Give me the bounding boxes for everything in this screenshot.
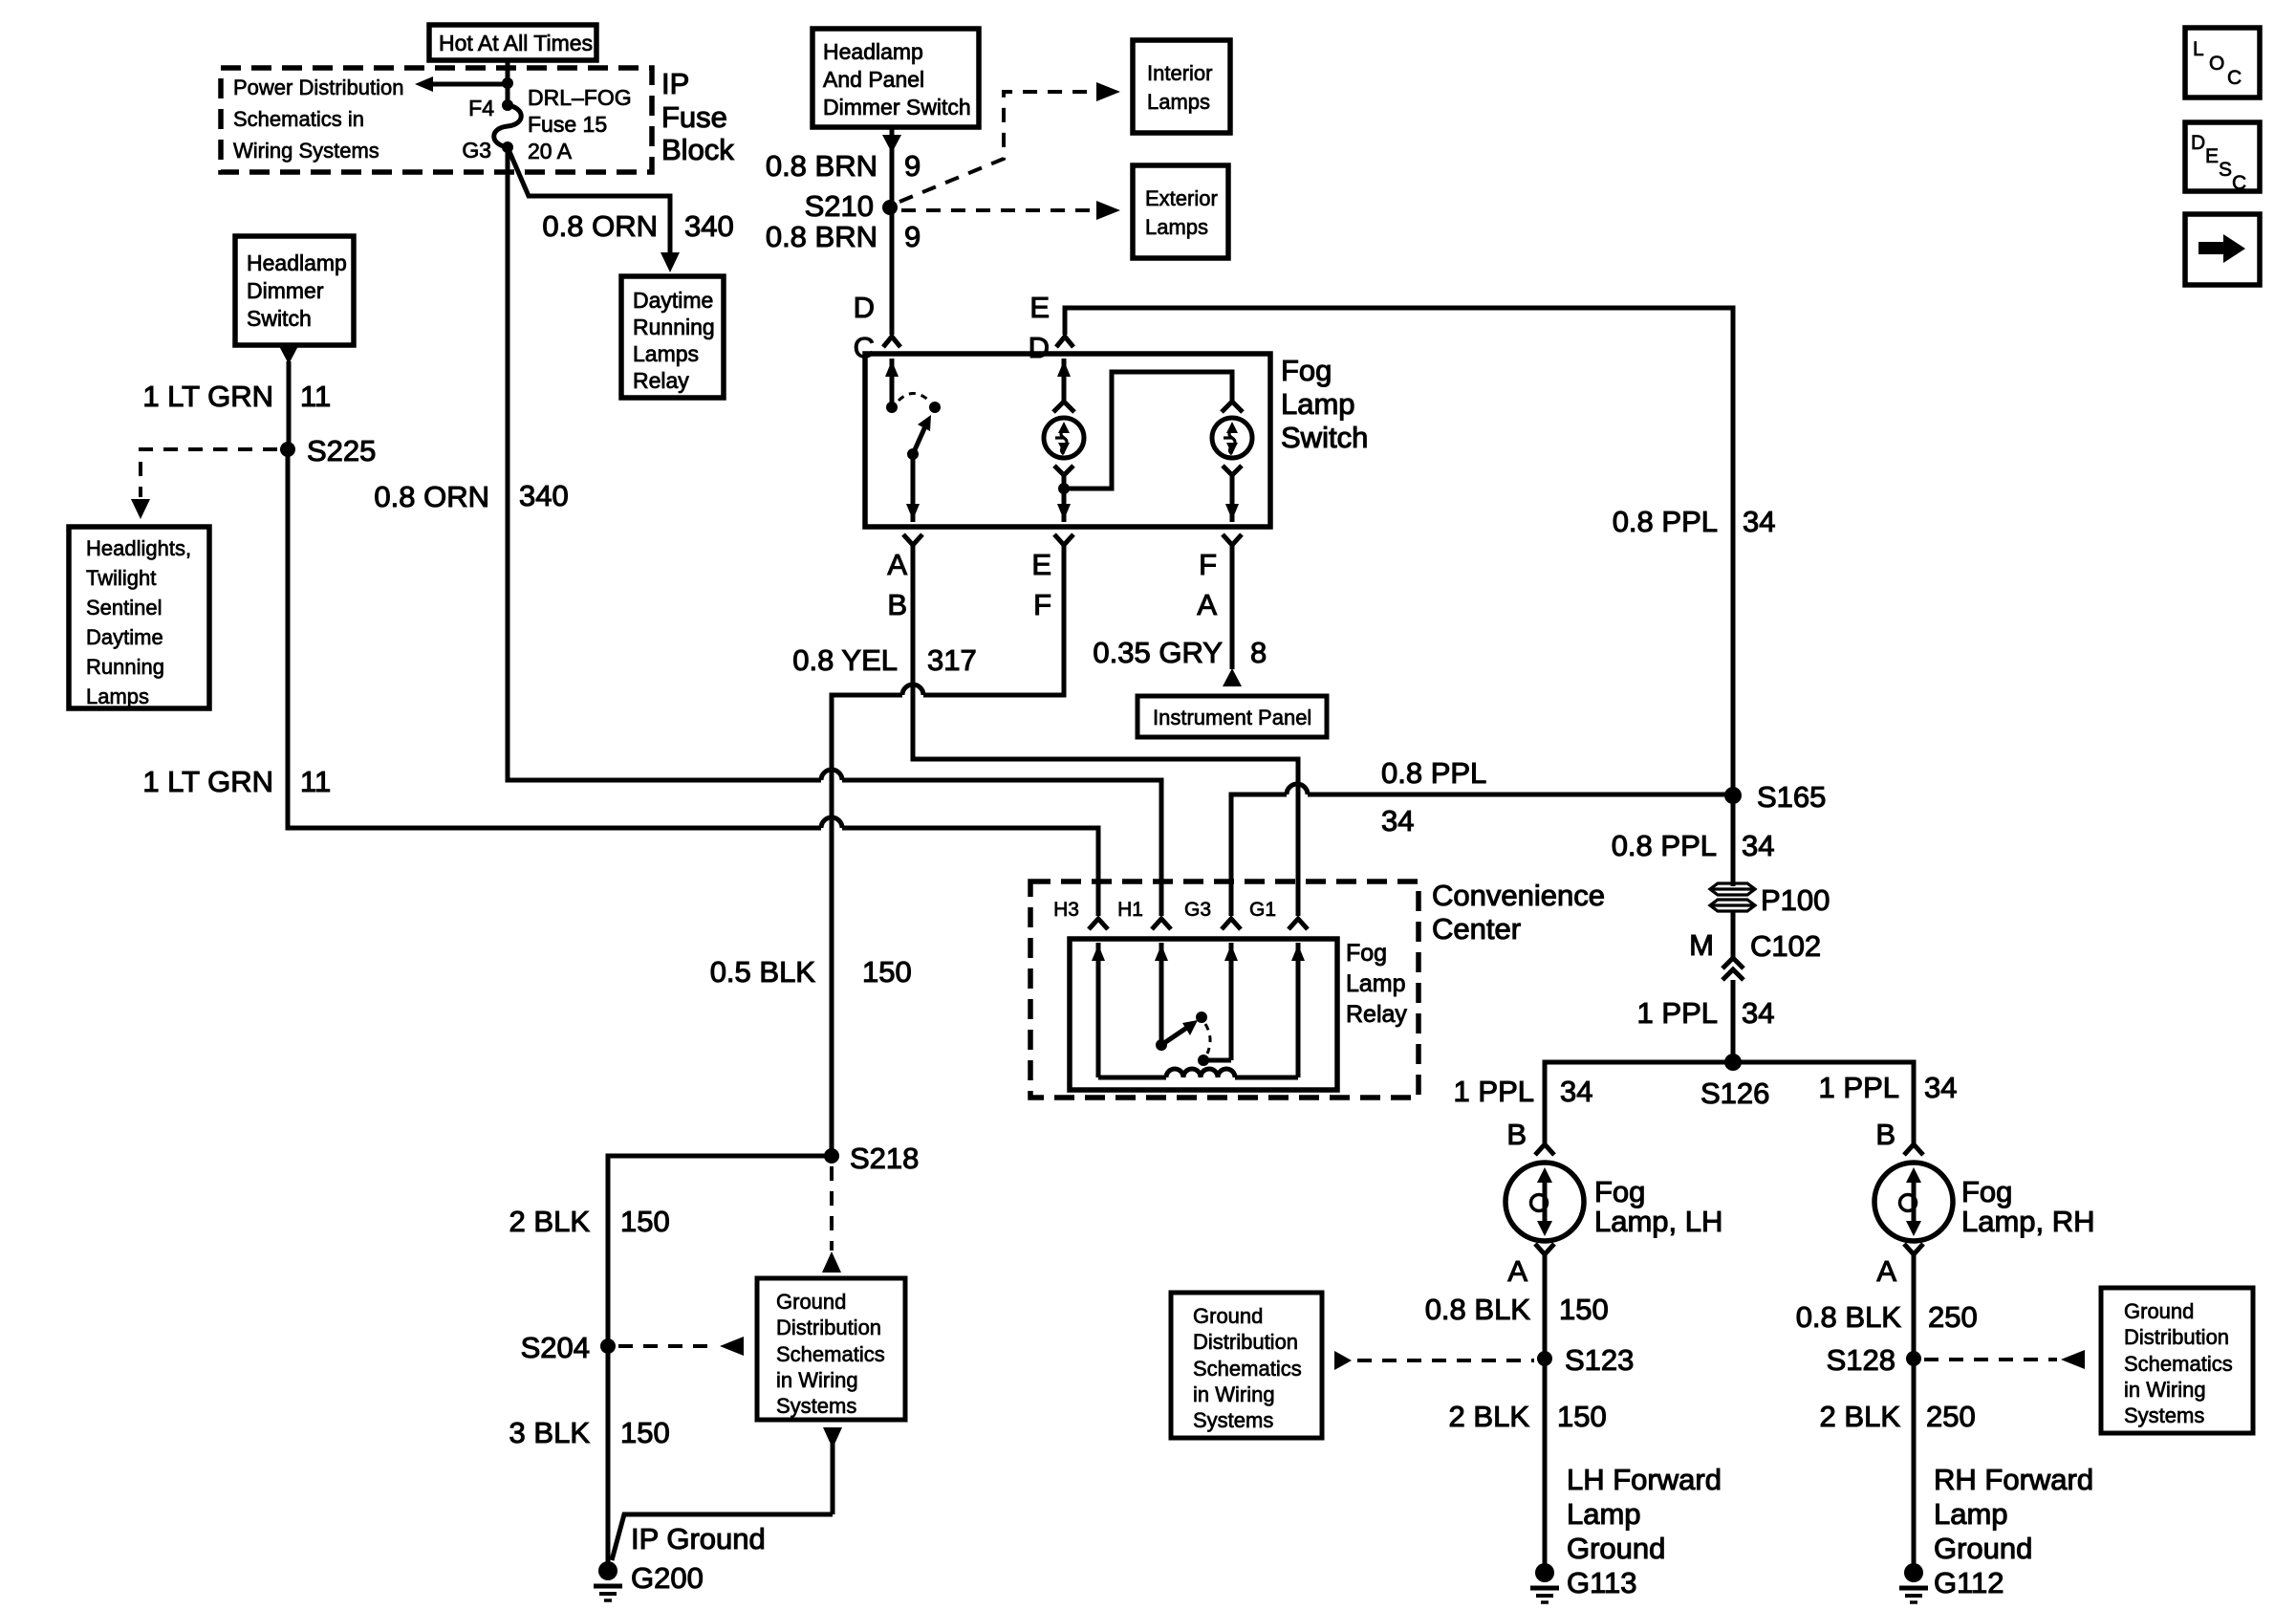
- wire: LT GRN continues to H3 of convenience center: [842, 828, 1098, 916]
- svg-text:B: B: [1506, 1118, 1527, 1151]
- arrow out of headlamp and panel dimmer switch: [882, 127, 901, 207]
- splice S165: [1724, 780, 1826, 814]
- svg-text:Fog: Fog: [1961, 1175, 2012, 1208]
- svg-text:8: 8: [1250, 636, 1267, 669]
- arrow out of ground distribution box bottom: [823, 1427, 842, 1514]
- relay switch pivot: [1156, 1039, 1167, 1051]
- svg-text:34: 34: [1743, 505, 1775, 538]
- svg-text:Ground: Ground: [1193, 1304, 1263, 1328]
- wire: 3 BLK 150 from S204 down to G200: [606, 1346, 611, 1564]
- svg-text:C: C: [2227, 67, 2242, 89]
- svg-text:B: B: [1875, 1118, 1895, 1151]
- label: 0.8 YEL 317: [792, 643, 976, 677]
- indicator lamp (middle): [1044, 418, 1084, 458]
- svg-text:Schematics: Schematics: [2124, 1352, 2233, 1376]
- svg-text:Fog: Fog: [1346, 940, 1387, 967]
- svg-text:34: 34: [1742, 996, 1774, 1030]
- svg-text:Dimmer Switch: Dimmer Switch: [823, 95, 971, 120]
- wire: 0.8 BLK 150 from LH lamp to S123: [1543, 1254, 1548, 1359]
- svg-text:0.5 BLK: 0.5 BLK: [710, 955, 816, 989]
- svg-text:in Wiring: in Wiring: [776, 1368, 858, 1392]
- svg-text:DRL–FOG: DRL–FOG: [528, 85, 632, 110]
- dashed reference from S128 to ground distribution box: [1924, 1350, 2085, 1369]
- wire: hot feed from Hot At All Times into fuse block: [506, 60, 510, 105]
- box: Ground Distribution Schematics in Wiring Systems (right): [2101, 1288, 2253, 1433]
- svg-text:Distribution: Distribution: [1193, 1330, 1298, 1354]
- label: Fog Lamp Relay: [1346, 940, 1407, 1028]
- svg-text:34: 34: [1742, 829, 1774, 862]
- wire: 2 BLK 150 from S123 down to G113: [1543, 1359, 1548, 1564]
- svg-text:Hot At All Times: Hot At All Times: [439, 31, 593, 55]
- wire: 0.8 PPL from fog lamp switch pin E up and over to S165: [1065, 308, 1733, 795]
- wire: 0.8 YEL 317 from switch pin B down, right to relay G1: [913, 545, 1298, 916]
- splice S210: [805, 189, 898, 223]
- svg-text:Ground: Ground: [2124, 1299, 2194, 1323]
- label: 2 BLK 150: [509, 1205, 670, 1238]
- svg-text:Fuse 15: Fuse 15: [528, 112, 607, 137]
- svg-text:Switch: Switch: [1281, 421, 1368, 454]
- switch panel lamp feed from pin D with entry arrow: [1057, 359, 1071, 402]
- svg-text:Distribution: Distribution: [776, 1316, 881, 1339]
- svg-text:Lamps: Lamps: [1145, 215, 1208, 239]
- connector chevron at pin D: [1056, 337, 1073, 347]
- svg-text:S218: S218: [850, 1142, 919, 1175]
- svg-text:317: 317: [927, 643, 977, 677]
- ground G112: [1899, 1563, 1928, 1602]
- dashed reference from S218 to ground distribution box: [822, 1166, 841, 1273]
- svg-text:S204: S204: [521, 1331, 590, 1364]
- label: Fog Lamp, LH: [1594, 1175, 1722, 1238]
- wire: 1 LT GRN 11 down from S225 to H3: [288, 449, 821, 828]
- svg-text:G1: G1: [1249, 899, 1276, 921]
- wire from middle lamp to junction: [1062, 475, 1067, 489]
- svg-text:A: A: [1197, 588, 1217, 621]
- relay coil: [1098, 1069, 1298, 1077]
- svg-text:S165: S165: [1757, 780, 1826, 814]
- grommet P100: [1710, 883, 1830, 917]
- svg-text:S128: S128: [1827, 1343, 1895, 1377]
- terminal G3: [1184, 899, 1241, 929]
- svg-text:34: 34: [1381, 804, 1414, 838]
- svg-text:Lamp: Lamp: [1281, 387, 1355, 421]
- svg-text:P100: P100: [1761, 883, 1830, 917]
- switch pivot: [907, 448, 919, 460]
- svg-text:3 BLK: 3 BLK: [509, 1416, 591, 1449]
- relay coil leg H3 with entry arrow: [1092, 943, 1105, 1077]
- wire: S126 branch right to RH fog lamp: [1733, 1062, 1914, 1143]
- svg-text:H3: H3: [1053, 899, 1079, 921]
- svg-text:Lamp: Lamp: [1346, 970, 1406, 997]
- svg-text:34: 34: [1924, 1071, 1957, 1104]
- box: Ground Distribution Schematics in Wiring Systems (middle): [757, 1278, 905, 1420]
- box: Headlights, Twilight Sentinel Daytime Running Lamps: [69, 527, 209, 708]
- svg-text:Switch: Switch: [247, 306, 312, 331]
- svg-text:0.8 YEL: 0.8 YEL: [792, 643, 898, 677]
- svg-text:Fuse: Fuse: [661, 100, 727, 134]
- svg-text:A: A: [1876, 1254, 1896, 1288]
- svg-text:M: M: [1689, 928, 1714, 962]
- chevron below middle indicator lamp: [1054, 466, 1073, 475]
- splice S128: [1827, 1343, 1921, 1377]
- svg-text:11: 11: [300, 765, 331, 798]
- hop over 0.5 BLK wire: [821, 770, 842, 780]
- wire: 2 BLK 150 from S218 left and down to S204: [608, 1156, 832, 1346]
- svg-text:1 LT GRN: 1 LT GRN: [142, 765, 273, 798]
- wire: switch pin F down, left, down as 0.5 BLK 150: [923, 545, 1064, 695]
- label: 0.8 BRN 9 (upper): [766, 149, 921, 183]
- svg-text:Systems: Systems: [776, 1394, 856, 1418]
- svg-text:150: 150: [620, 1205, 670, 1238]
- connector C102 pin M: [1689, 928, 1821, 980]
- label: LH Forward Lamp Ground G113: [1567, 1463, 1722, 1599]
- svg-text:0.8 BRN: 0.8 BRN: [766, 220, 877, 253]
- connector chevron at pin C: [883, 337, 900, 347]
- wire: 0.35 GRY 8 from switch pin A to instrument panel: [1223, 545, 1242, 686]
- pin labels E / F below switch: [1031, 548, 1051, 621]
- svg-text:G3: G3: [462, 138, 491, 163]
- label: 2 BLK 250: [1820, 1400, 1976, 1433]
- svg-text:D: D: [2191, 132, 2205, 154]
- indicator lamp (right): [1212, 418, 1252, 458]
- svg-text:Fog: Fog: [1594, 1175, 1645, 1208]
- connector chevron at RH pin A: [1904, 1244, 1923, 1254]
- pin F4: [468, 96, 513, 120]
- wire from ground distribution box down to IP ground: [612, 1514, 833, 1560]
- IP fuse block dashed box: [221, 68, 652, 172]
- svg-text:250: 250: [1926, 1400, 1976, 1433]
- svg-text:2 BLK: 2 BLK: [1449, 1400, 1530, 1433]
- svg-text:And Panel: And Panel: [823, 67, 924, 92]
- connector chevron at RH pin B: [1904, 1144, 1923, 1155]
- label: 0.8 BLK 250: [1796, 1300, 1978, 1334]
- svg-text:2 BLK: 2 BLK: [1820, 1400, 1901, 1433]
- svg-text:340: 340: [519, 479, 569, 512]
- box: Exterior Lamps: [1133, 165, 1228, 258]
- svg-text:C: C: [2232, 172, 2246, 194]
- label: Convenience Center: [1432, 879, 1605, 946]
- svg-text:Center: Center: [1432, 912, 1521, 946]
- box: Daytime Running Lamps Relay: [621, 276, 724, 398]
- label: 1 PPL 34: [1637, 996, 1775, 1030]
- svg-text:Fog: Fog: [1281, 354, 1332, 387]
- pin labels F / A below switch: [1197, 548, 1217, 621]
- label: 0.35 GRY 8: [1093, 636, 1267, 669]
- svg-text:Relay: Relay: [1346, 1001, 1407, 1028]
- svg-text:F: F: [1199, 548, 1217, 581]
- svg-text:S: S: [2219, 159, 2232, 181]
- splice S204: [521, 1331, 616, 1364]
- svg-text:Headlights,: Headlights,: [86, 536, 191, 560]
- svg-text:9: 9: [904, 149, 921, 183]
- svg-text:S225: S225: [307, 434, 376, 468]
- svg-text:Running: Running: [86, 655, 164, 679]
- svg-text:Lamp, LH: Lamp, LH: [1594, 1205, 1722, 1238]
- wire: 0.8 ORN 340 main run down left side: [508, 147, 821, 780]
- connector chevron at LH pin A: [1535, 1244, 1554, 1254]
- label: Fog Lamp, RH: [1961, 1175, 2095, 1238]
- node: junction at top of fuse: [502, 77, 513, 89]
- chevron above middle indicator lamp: [1053, 402, 1074, 412]
- fog lamp LH: [1505, 1163, 1584, 1241]
- svg-text:Lamp: Lamp: [1934, 1497, 2008, 1531]
- svg-text:A: A: [887, 548, 907, 581]
- svg-text:Exterior: Exterior: [1145, 186, 1218, 210]
- ground G113: [1530, 1563, 1559, 1602]
- wire: power distribution arrow: [415, 76, 508, 92]
- svg-text:150: 150: [1559, 1293, 1609, 1326]
- svg-text:D: D: [854, 291, 875, 324]
- wire: 2 BLK 250 from S128 down to G112: [1912, 1359, 1917, 1564]
- svg-text:IP: IP: [661, 67, 689, 100]
- label: 0.8 BRN 9 (lower): [766, 220, 921, 253]
- pin labels E / D: [1029, 291, 1050, 364]
- svg-text:11: 11: [300, 380, 331, 413]
- svg-text:Headlamp: Headlamp: [247, 250, 347, 275]
- splice S225: [280, 434, 376, 468]
- svg-text:0.8 PPL: 0.8 PPL: [1612, 829, 1717, 862]
- wire: S165 down to P100: [1731, 795, 1736, 886]
- svg-text:L: L: [2193, 38, 2204, 60]
- svg-text:LH Forward: LH Forward: [1567, 1463, 1722, 1496]
- relay switch moving arm with arrow: [1161, 1020, 1198, 1045]
- label: 1 LT GRN 11 (lower): [142, 765, 331, 798]
- svg-text:1 PPL: 1 PPL: [1454, 1075, 1534, 1108]
- label: 1 LT GRN 11 (upper): [142, 380, 331, 413]
- svg-text:0.8 ORN: 0.8 ORN: [374, 480, 489, 513]
- terminal H1: [1117, 899, 1171, 929]
- svg-text:in Wiring: in Wiring: [2124, 1378, 2206, 1402]
- box: Fog Lamp Switch: [865, 354, 1270, 527]
- box: Instrument Panel: [1137, 696, 1327, 737]
- legend box LOC: [2185, 28, 2260, 98]
- svg-text:H1: H1: [1117, 899, 1143, 921]
- label: 0.8 PPL / 34 (horizontal run): [1381, 756, 1486, 838]
- svg-text:Instrument Panel: Instrument Panel: [1153, 706, 1311, 729]
- legend box DESC: [2185, 122, 2260, 194]
- svg-text:2 BLK: 2 BLK: [509, 1205, 591, 1238]
- svg-text:Ground: Ground: [1567, 1532, 1665, 1565]
- label box: Hot At All Times: [429, 25, 596, 60]
- svg-text:Distribution: Distribution: [2124, 1325, 2229, 1349]
- svg-text:Twilight: Twilight: [86, 566, 156, 590]
- wire: 0.8 PPL 34 from S165 left to relay G3: [1308, 793, 1733, 797]
- wire: middle lamp output to pin F with exit arrow: [1057, 489, 1071, 522]
- svg-text:Ground: Ground: [776, 1290, 846, 1314]
- svg-text:Schematics: Schematics: [776, 1342, 885, 1366]
- value: DRL-FOG Fuse 15 20 A: [528, 85, 632, 163]
- label: 0.8 ORN 340 (middle): [374, 479, 568, 513]
- svg-text:Lamps: Lamps: [633, 341, 699, 366]
- svg-text:G112: G112: [1934, 1566, 2004, 1599]
- box: Headlamp Dimmer Switch: [235, 236, 354, 345]
- dashed reference from S225 to Headlights box: [131, 449, 277, 519]
- svg-text:S123: S123: [1565, 1343, 1634, 1377]
- svg-text:F4: F4: [468, 96, 494, 120]
- connector chevron at LH pin B: [1535, 1144, 1554, 1155]
- svg-text:1 PPL: 1 PPL: [1637, 996, 1718, 1030]
- label: 0.5 BLK 150: [710, 955, 912, 989]
- label: 0.8 BLK 150: [1425, 1293, 1609, 1326]
- svg-text:0.8 PPL: 0.8 PPL: [1613, 505, 1718, 538]
- box: Ground Distribution Schematics in Wiring Systems (left): [1171, 1293, 1322, 1438]
- wire: 0.8 BLK 250 from RH lamp to S128: [1912, 1254, 1917, 1359]
- svg-text:A: A: [1507, 1254, 1527, 1288]
- svg-text:Ground: Ground: [1934, 1532, 2032, 1565]
- svg-text:0.8 PPL: 0.8 PPL: [1381, 756, 1486, 790]
- svg-text:Block: Block: [661, 133, 734, 166]
- svg-text:1 PPL: 1 PPL: [1819, 1071, 1899, 1104]
- svg-text:S210: S210: [805, 189, 874, 223]
- terminal H3: [1053, 899, 1108, 929]
- label: 1 PPL 34 (left branch): [1454, 1075, 1593, 1108]
- relay switch lower contact: [1198, 1055, 1209, 1066]
- wire: 0.8 ORN 340 branch to DRL relay: [508, 147, 680, 272]
- arrow out of headlamp dimmer switch: [279, 346, 298, 449]
- svg-text:Daytime: Daytime: [86, 625, 163, 649]
- svg-text:G200: G200: [631, 1561, 704, 1595]
- dashed reference from ground distribution box to S123: [1334, 1351, 1534, 1370]
- svg-text:Systems: Systems: [1193, 1408, 1273, 1432]
- svg-text:Schematics in: Schematics in: [233, 107, 364, 131]
- svg-text:340: 340: [684, 209, 734, 243]
- svg-text:Lamps: Lamps: [1147, 90, 1210, 114]
- svg-text:Wiring Systems: Wiring Systems: [233, 139, 379, 163]
- svg-text:Headlamp: Headlamp: [823, 39, 923, 64]
- pin labels A / B below switch: [887, 548, 907, 621]
- dashed reference from S204 to ground distribution box: [618, 1337, 744, 1356]
- svg-text:Daytime: Daytime: [633, 288, 713, 313]
- switch moving arm with arrow: [913, 415, 931, 454]
- terminal G1: [1249, 899, 1308, 929]
- label: IP Ground G200: [631, 1522, 766, 1595]
- ground G200: [594, 1561, 622, 1600]
- svg-text:9: 9: [904, 220, 921, 253]
- svg-text:Interior: Interior: [1147, 61, 1212, 85]
- svg-text:RH Forward: RH Forward: [1934, 1463, 2093, 1496]
- label: 0.8 PPL 34 (right riser): [1613, 505, 1776, 538]
- connector chevron at pin B: [903, 534, 922, 545]
- svg-text:E: E: [1031, 548, 1051, 581]
- hop over 0.5 BLK wire: [821, 817, 842, 828]
- svg-text:C102: C102: [1750, 929, 1821, 963]
- svg-text:Lamp: Lamp: [1567, 1497, 1641, 1531]
- hop of pin F wire over 0.8 YEL wire: [902, 685, 923, 695]
- internal wire from junction to right indicator lamp: [1064, 372, 1232, 489]
- svg-text:G3: G3: [1184, 899, 1211, 921]
- svg-text:1 LT GRN: 1 LT GRN: [142, 380, 273, 413]
- switch travel dashed arc: [899, 394, 929, 402]
- wire: P100 to C102: [1731, 910, 1736, 958]
- svg-text:E: E: [2205, 145, 2219, 167]
- wire: S126 branch left to LH fog lamp: [1545, 1062, 1733, 1143]
- legend box arrow: [2185, 214, 2260, 285]
- svg-text:34: 34: [1560, 1075, 1592, 1108]
- wire from lower contact to G3 leg: [1203, 1058, 1231, 1063]
- chevron below right indicator lamp: [1223, 466, 1242, 475]
- svg-text:S126: S126: [1700, 1077, 1769, 1110]
- box: Headlamp And Panel Dimmer Switch: [812, 29, 979, 127]
- svg-text:Systems: Systems: [2124, 1403, 2204, 1427]
- relay coil leg G1 with entry arrow: [1291, 943, 1305, 1077]
- fog lamp RH: [1874, 1163, 1953, 1241]
- switch fixed contact (left): [886, 402, 898, 413]
- fuse F15 DRL-FOG 20A: [494, 105, 522, 147]
- wire: right lamp output to pin A with exit arrow: [1225, 475, 1239, 522]
- connector chevron at pin A: [1223, 534, 1242, 545]
- label: RH Forward Lamp Ground G112: [1934, 1463, 2093, 1599]
- svg-text:Dimmer: Dimmer: [247, 278, 324, 303]
- svg-text:Power Distribution: Power Distribution: [233, 76, 404, 99]
- hop over G1 wire: [1287, 784, 1308, 794]
- relay switch travel dashed arc: [1205, 1024, 1210, 1054]
- wire: 0.8 BRN 9 from S210 down to fog lamp switch pin C: [890, 207, 895, 335]
- box: Fog Lamp Relay: [1070, 939, 1337, 1090]
- svg-text:Sentinel: Sentinel: [86, 596, 162, 620]
- switch output to pin B with exit arrow: [906, 454, 920, 522]
- splice S126: [1700, 1054, 1769, 1110]
- svg-text:Convenience: Convenience: [1432, 879, 1605, 912]
- relay switch common leg H1 with entry arrow: [1155, 943, 1168, 1045]
- chevron above right indicator lamp: [1222, 402, 1243, 412]
- splice S218: [824, 1142, 919, 1175]
- svg-text:150: 150: [620, 1416, 670, 1449]
- svg-text:B: B: [887, 588, 907, 621]
- svg-text:250: 250: [1928, 1300, 1978, 1334]
- relay switch upper contact: [1196, 1012, 1207, 1023]
- svg-text:0.8 BLK: 0.8 BLK: [1425, 1293, 1531, 1326]
- svg-text:E: E: [1029, 291, 1050, 324]
- svg-text:Schematics: Schematics: [1193, 1357, 1302, 1381]
- label: 0.8 PPL 34 (above P100): [1612, 829, 1775, 862]
- connector chevron at pin F: [1054, 534, 1073, 545]
- label: 2 BLK 150 (LH): [1449, 1400, 1607, 1433]
- svg-text:20 A: 20 A: [528, 139, 573, 163]
- svg-text:0.8 ORN: 0.8 ORN: [542, 209, 658, 243]
- relay switch output leg G3 with entry arrow: [1224, 943, 1238, 1060]
- svg-text:150: 150: [1557, 1400, 1607, 1433]
- label: Fog Lamp Switch: [1281, 354, 1368, 454]
- switch feed from pin C with entry arrow: [885, 359, 899, 402]
- switch fixed contact (right): [929, 402, 941, 413]
- svg-text:0.8 BRN: 0.8 BRN: [766, 149, 877, 183]
- svg-text:IP Ground: IP Ground: [631, 1522, 766, 1556]
- dashed reference from S210 to Exterior Lamps: [901, 201, 1120, 220]
- svg-text:G113: G113: [1567, 1566, 1637, 1599]
- dashed reference from S210 to Interior Lamps: [899, 82, 1120, 202]
- label: 3 BLK 150: [509, 1416, 670, 1449]
- splice S123: [1537, 1343, 1634, 1377]
- svg-text:O: O: [2209, 53, 2224, 75]
- pin G3: [462, 138, 513, 163]
- label: 1 PPL 34 (right branch): [1819, 1071, 1958, 1104]
- svg-text:Lamp, RH: Lamp, RH: [1961, 1205, 2095, 1238]
- label: 0.8 ORN 340 (top): [542, 209, 733, 243]
- wire: ORN continues to H1 of convenience center: [842, 780, 1161, 916]
- svg-text:150: 150: [862, 955, 912, 989]
- svg-text:0.8 BLK: 0.8 BLK: [1796, 1300, 1902, 1334]
- box: Convenience Center (dashed): [1030, 881, 1419, 1098]
- node: junction below middle lamp: [1058, 483, 1070, 494]
- svg-text:in Wiring: in Wiring: [1193, 1382, 1275, 1406]
- svg-text:Relay: Relay: [633, 368, 689, 393]
- svg-text:D: D: [1029, 331, 1050, 364]
- svg-text:Lamps: Lamps: [86, 685, 149, 708]
- pin labels D / C: [854, 291, 875, 364]
- svg-text:0.35 GRY: 0.35 GRY: [1093, 636, 1223, 669]
- wire: 1 PPL 34 from C102 down to S126: [1731, 980, 1736, 1062]
- box: Interior Lamps: [1133, 40, 1230, 133]
- note: Power Distribution Schematics in Wiring Systems: [233, 76, 404, 163]
